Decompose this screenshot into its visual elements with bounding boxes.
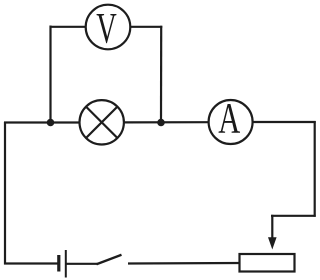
wire: switch fixed contact to rheostat left terminal xyxy=(128,262,240,265)
switch: open blade xyxy=(97,255,122,264)
lamp: circle with X (bulb) xyxy=(80,100,124,144)
node: junction dot left of lamp xyxy=(47,119,55,127)
voltmeter V xyxy=(86,5,131,53)
svg-text:A: A xyxy=(218,96,240,143)
rheostat: resistor body rectangle xyxy=(240,254,295,272)
rheostat: wiper arrow stem xyxy=(271,215,273,241)
wire: horizontal from arrow stem to right vertical xyxy=(271,215,316,217)
wire: ammeter right lead to right corner xyxy=(252,121,316,123)
ammeter A xyxy=(209,96,253,145)
wire: voltmeter branch top left horizontal xyxy=(50,26,87,28)
wire: lamp right lead to ammeter xyxy=(123,121,209,123)
wire: battery to switch pivot xyxy=(66,263,98,265)
battery: short thick plate (negative) xyxy=(57,255,60,272)
node: junction dot right of lamp xyxy=(157,119,165,127)
wire: voltmeter branch right vertical xyxy=(160,26,162,123)
wire: voltmeter branch top right horizontal xyxy=(130,26,162,28)
wire: left lead from lamp row to left edge xyxy=(4,121,80,123)
wire: right vertical (ammeter corner down) xyxy=(314,121,316,217)
wire: voltmeter branch left vertical xyxy=(49,26,51,123)
wire: left vertical branch (left side of loop) xyxy=(4,122,6,265)
battery: long thin plate (positive) xyxy=(65,250,67,278)
svg-text:V: V xyxy=(96,5,117,52)
wire: bottom left from corner to battery xyxy=(4,262,58,264)
rheostat: wiper arrowhead xyxy=(268,237,277,249)
